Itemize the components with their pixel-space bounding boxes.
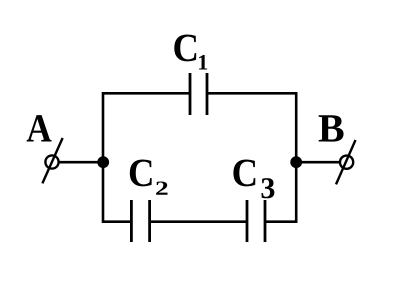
label C3 bbox=[233, 160, 255, 187]
wire: top-left loop segment (C1 left plate to left rail down to C2 left plate) bbox=[103, 93, 190, 221]
wire: top-right loop segment (C1 right plate to right rail down to C3 right plate) bbox=[207, 93, 296, 221]
label A bbox=[27, 115, 52, 141]
terminal B: open circle bbox=[340, 156, 353, 169]
wire: left terminal lead bbox=[58, 161, 103, 164]
label C2 bbox=[130, 160, 152, 187]
terminal A: open circle bbox=[45, 155, 58, 168]
label B bbox=[319, 115, 344, 141]
terminal A: slash bbox=[42, 138, 62, 183]
capacitor C1 bbox=[190, 73, 207, 115]
wire: bottom middle segment (C2 right plate to C3 left plate) bbox=[150, 220, 247, 223]
node: junction dot right bbox=[290, 156, 302, 168]
wire: right terminal lead bbox=[296, 161, 340, 164]
terminal B: slash bbox=[336, 140, 356, 184]
capacitor C2 bbox=[131, 200, 149, 242]
label C1 bbox=[174, 35, 196, 62]
capacitor C3 bbox=[247, 200, 265, 242]
node: junction dot left bbox=[97, 156, 109, 168]
